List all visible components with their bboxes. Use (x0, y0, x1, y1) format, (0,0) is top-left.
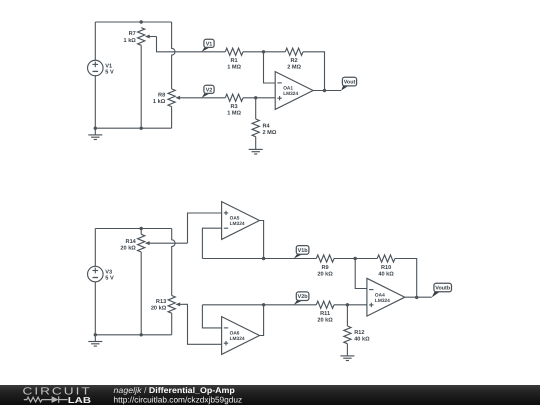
wire R10 right lead down to output node (395, 259, 417, 298)
svg-text:http://circuitlab.com/ckzdxjb5: http://circuitlab.com/ckzdxjb59gduz (114, 394, 243, 404)
wire OA6 inverting input feedback (202, 305, 221, 328)
op-amp OA1 LM324 (275, 72, 313, 110)
wire OA4 output (405, 296, 432, 298)
node junction V1- / ground (94, 127, 97, 130)
wire OA6 output up (260, 305, 264, 336)
wire R9 to R10 (334, 258, 377, 260)
resistor R7 1 kΩ potentiometer body (138, 28, 145, 46)
node flag Vout (341, 77, 356, 90)
wire R13 top lead with hop over R14 wiper wire (172, 229, 175, 296)
potentiometer R14 wiper arrow (145, 241, 188, 245)
resistor R13 20 kΩ potentiometer body (168, 296, 175, 314)
node junction top rail / R7 top (140, 20, 143, 23)
resistor R1 1 MΩ body (225, 48, 243, 55)
wire R12 bottom lead (346, 344, 348, 356)
resistor R10 40 kΩ feedback body (377, 255, 395, 262)
node junction R7 bottom / rail (140, 127, 143, 130)
node junction OA6 output/feedback (262, 303, 265, 306)
wire R3 to OA1 non-inverting input (243, 97, 275, 99)
wire OA5 inverting input feedback (202, 228, 221, 258)
svg-text:nageljk / Differential_Op-Amp: nageljk / Differential_Op-Amp (114, 385, 235, 395)
node flag V1b (294, 246, 309, 259)
wire V1 bottom lead (94, 76, 96, 128)
wire top rail (V1+ to R7/R8 tops) (95, 21, 171, 23)
resistor R14 20 kΩ potentiometer body (138, 234, 145, 252)
node flag V1 (202, 39, 214, 52)
potentiometer R13 wiper arrow (175, 302, 183, 306)
node junction R3/R4 (254, 96, 257, 99)
wire R4 bottom lead (255, 137, 257, 149)
wire R14 bottom lead (140, 252, 142, 335)
wire R8 wiper to R3 / node V2 (183, 97, 225, 99)
wire OA1 output (313, 90, 341, 92)
wire R8 bottom lead (171, 107, 173, 129)
svg-text:LAB: LAB (68, 395, 91, 405)
node junction V3- / ground (94, 333, 97, 336)
wire R13 bottom lead (171, 313, 173, 335)
wire R2 right lead down to output node (303, 52, 325, 91)
node junction OA5 output/feedback (262, 257, 265, 260)
wire OA5 output down (260, 221, 264, 259)
node junction R1/R2/op-amp inverting (262, 50, 265, 53)
wire R1 to R2 / junction (243, 51, 285, 53)
wire OA5 output line to R9 / node V1b (202, 258, 316, 260)
wire OA6 output line to R11 / node V2b (202, 304, 316, 306)
node junction R9/R10/OA4 inverting (354, 257, 357, 260)
wire junction down to OA1 inverting input (264, 52, 276, 83)
wire V1 top lead (94, 22, 96, 60)
wire V3 bottom lead (94, 282, 96, 335)
ground symbol (top circuit) (88, 135, 102, 140)
footer bar (0, 385, 540, 405)
op-amp OA4 LM324 (367, 278, 405, 316)
CircuitLab logo resistor-diode glyph (24, 396, 68, 403)
node junction OA4 output/R10 (415, 296, 418, 299)
node junction R11/R12 (346, 303, 349, 306)
resistor R9 20 kΩ body (316, 255, 334, 262)
potentiometer R7 wiper arrow (145, 35, 157, 39)
ground symbol (bottom circuit) (88, 342, 102, 347)
wire R13 wiper down to OA6 non-inverting input (183, 304, 222, 344)
wire R4 top lead (255, 98, 257, 119)
node flag V2 (202, 85, 214, 98)
resistor R8 1 kΩ potentiometer body (168, 89, 175, 107)
wire junction down to OA4 inverting input (355, 259, 367, 289)
op-amp OA6 LM324 buffer (222, 317, 260, 355)
potentiometer R8 wiper arrow (175, 96, 183, 100)
wire R7 wiper to R1 / node V1 (157, 37, 226, 52)
wire R14 wiper up to OA5 non-inverting input (188, 213, 222, 243)
node flag Voutb (432, 283, 452, 297)
wire R12 top lead (346, 305, 348, 326)
resistor R3 1 MΩ body (225, 94, 243, 101)
ground symbol below R4 (249, 149, 263, 154)
op-amp OA5 LM324 buffer (222, 202, 260, 240)
node flag V2b (294, 292, 309, 305)
node junction rail / R14 top (140, 227, 143, 230)
wire R11 to OA4 non-inverting input (334, 304, 367, 306)
resistor R2 2 MΩ feedback body (285, 48, 303, 55)
wire bottom rail (ground net) (95, 127, 171, 129)
wire R8 top lead with hop over wiper wire (172, 22, 175, 89)
voltage source V3 5 V (88, 266, 114, 282)
wire ground stub (94, 128, 96, 134)
node junction R14 bottom / rail (140, 333, 143, 336)
wire bottom rail bottom circuit (95, 334, 171, 336)
voltage source V1 5 V (88, 60, 114, 76)
wire R7 bottom lead (140, 45, 142, 128)
ground symbol below R12 (340, 356, 354, 361)
wire V3 top lead (94, 229, 96, 267)
node junction output/feedback (323, 89, 326, 92)
resistor R12 40 kΩ body (344, 326, 351, 344)
resistor R4 2 MΩ body (252, 119, 259, 137)
wire R14 top lead (140, 229, 142, 235)
resistor R11 20 kΩ body (316, 301, 334, 308)
wire ground stub bottom (94, 335, 96, 341)
wire top rail bottom circuit (95, 228, 171, 230)
